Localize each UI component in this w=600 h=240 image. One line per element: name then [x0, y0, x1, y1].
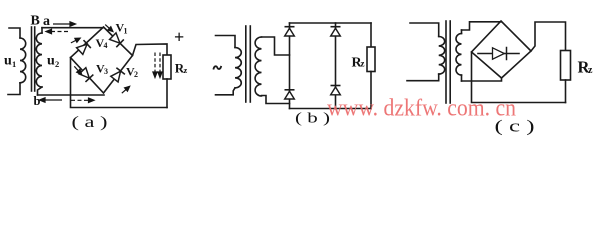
- svg-text:( b ): ( b ): [295, 111, 330, 127]
- svg-text:1: 1: [12, 59, 16, 69]
- svg-text:( a ): ( a ): [72, 114, 108, 131]
- svg-text:b: b: [34, 94, 41, 108]
- svg-text:z: z: [361, 59, 365, 69]
- svg-text:a: a: [43, 14, 50, 29]
- svg-text:z: z: [184, 65, 188, 75]
- svg-text:u: u: [4, 54, 12, 69]
- svg-text:B: B: [31, 14, 40, 29]
- svg-text:u: u: [47, 54, 55, 69]
- svg-text:2: 2: [55, 59, 59, 69]
- svg-text:1: 1: [124, 27, 128, 36]
- svg-text:2: 2: [134, 70, 138, 79]
- svg-text:z: z: [588, 65, 593, 76]
- svg-text:4: 4: [104, 41, 108, 50]
- svg-text:3: 3: [104, 67, 108, 76]
- svg-text:+: +: [174, 27, 184, 47]
- svg-text:www. dzkfw. com. cn: www. dzkfw. com. cn: [327, 95, 516, 122]
